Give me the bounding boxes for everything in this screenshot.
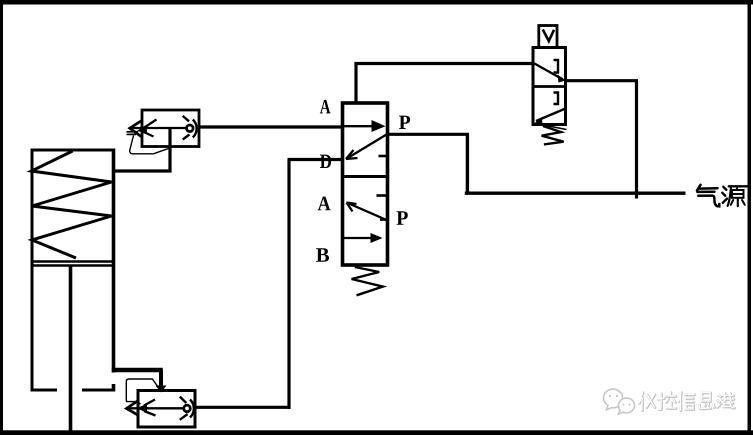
FCV2 throttle arrow bbox=[144, 400, 156, 416]
pilot valve spring bbox=[542, 126, 564, 144]
pilot valve button V bbox=[543, 30, 554, 42]
pilot valve top cell bbox=[534, 60, 564, 80]
wire cylinder bottom port bbox=[112, 368, 163, 373]
flow control valve FCV2 body bbox=[138, 391, 195, 428]
border frame left bbox=[0, 0, 3, 431]
cylinder body bbox=[31, 149, 116, 392]
wire port P drop bbox=[466, 134, 469, 194]
wire FCV1 to valve port A bbox=[199, 125, 344, 128]
FCV2 flow line bbox=[127, 407, 184, 409]
main valve body bbox=[343, 103, 388, 265]
wire drop to FCV2 bbox=[159, 370, 163, 387]
air source text 源 bbox=[722, 186, 747, 206]
wire FCV1 drop leg bbox=[168, 128, 171, 173]
cylinder return spring bbox=[32, 151, 112, 258]
FCV1 flow line bbox=[130, 127, 187, 129]
main valve divider bbox=[343, 175, 388, 178]
FCV1 check valve seat bbox=[193, 120, 197, 138]
label B bbox=[316, 248, 329, 261]
main valve bottom cell arrow bbox=[344, 237, 371, 239]
pilot valve bottom cell bbox=[536, 93, 567, 130]
border frame top bbox=[0, 0, 753, 5]
air supply line bbox=[465, 191, 686, 194]
label D bbox=[320, 155, 331, 168]
watermark logo chat bubbles bbox=[604, 389, 635, 414]
border frame right bbox=[748, 0, 752, 435]
pilot wire riser bbox=[354, 62, 357, 104]
main valve bottom cell diagonal bbox=[347, 196, 388, 221]
FCV1 throttle chevron bbox=[130, 120, 143, 137]
wire pilot valve drop to air line bbox=[635, 81, 638, 199]
main valve return spring bbox=[352, 267, 383, 295]
air source text 气 bbox=[697, 185, 719, 207]
label A top bbox=[320, 100, 331, 114]
wire valve port B riser bbox=[287, 160, 290, 409]
wire pilot valve out bbox=[566, 79, 639, 82]
label P top bbox=[399, 116, 410, 129]
border frame bottom bbox=[0, 430, 753, 435]
flow control valve FCV1 body bbox=[142, 110, 199, 147]
pilot valve body bbox=[533, 48, 566, 125]
main valve top cell arrow A to P bbox=[344, 125, 374, 127]
FCV1 bypass line bbox=[130, 136, 169, 154]
FCV2 check valve ball bbox=[184, 405, 191, 412]
pilot valve divider bbox=[533, 85, 566, 88]
wire FCV2 output bbox=[195, 406, 291, 409]
piston rod bbox=[69, 266, 73, 433]
pilot wire horizontal bbox=[355, 62, 535, 65]
FCV1 throttle arrow bbox=[127, 120, 157, 137]
FCV2 throttle chevron bbox=[127, 400, 140, 416]
wire valve port B horizontal bbox=[288, 158, 345, 161]
main valve top cell diagonal bbox=[346, 135, 387, 160]
FCV2 check valve seat bbox=[190, 400, 194, 418]
wire cylinder top port to FCV1 bbox=[114, 169, 172, 172]
wire valve port P bbox=[388, 133, 470, 136]
cylinder piston bbox=[32, 262, 113, 266]
label A bottom bbox=[318, 197, 331, 211]
pilot valve button box bbox=[539, 26, 557, 48]
FCV1 check valve ball bbox=[187, 125, 194, 132]
FCV2 bypass line bbox=[126, 379, 158, 404]
label P bottom bbox=[397, 211, 408, 224]
